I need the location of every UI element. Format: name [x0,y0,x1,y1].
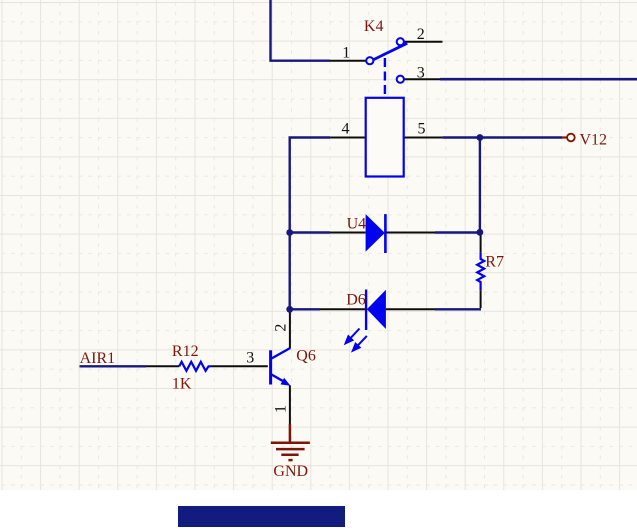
svg-text:1: 1 [272,405,289,413]
svg-text:V12: V12 [580,132,608,149]
svg-text:Q6: Q6 [296,348,316,365]
svg-text:5: 5 [418,121,426,138]
svg-text:3: 3 [417,65,425,82]
svg-text:U4: U4 [347,216,367,233]
svg-text:4: 4 [342,121,350,138]
svg-text:R7: R7 [485,254,504,271]
svg-text:1K: 1K [172,376,192,393]
svg-text:D6: D6 [346,292,366,309]
svg-text:GND: GND [273,463,308,480]
svg-text:K4: K4 [364,18,384,35]
svg-text:AIR1: AIR1 [80,350,116,367]
svg-text:3: 3 [246,350,254,367]
svg-text:2: 2 [272,324,289,332]
svg-text:2: 2 [417,26,425,43]
svg-text:1: 1 [342,45,350,62]
svg-text:R12: R12 [172,343,199,360]
